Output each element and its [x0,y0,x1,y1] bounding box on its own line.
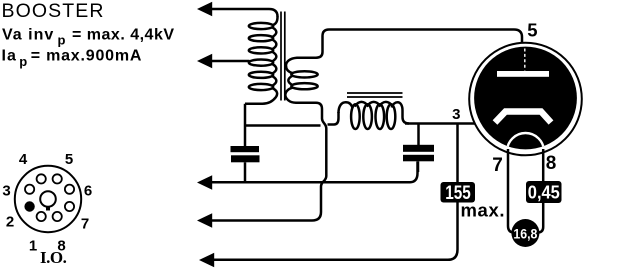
svg-text:= max.900mA: = max.900mA [31,48,143,65]
svg-text:BOOSTER: BOOSTER [2,0,105,22]
capacitor C2 [403,145,434,162]
C1 top lead vertical [244,104,247,146]
value circle 16,8 [511,219,539,247]
svg-text:Va inv: Va inv [2,27,54,44]
socket pin 3 [25,185,34,194]
svg-text:5: 5 [65,151,73,168]
rating Ia p = max.900mA [2,48,143,70]
rating Va inv p = max. 4,4kV [2,27,175,48]
ground rail wire y=181 to arrow 3 [210,162,418,183]
socket pin 5 [53,174,62,183]
pin 5 anode lead dashes inside disc [524,49,526,71]
terminal arrow 2 (primary tap) [197,54,250,68]
svg-text:= max. 4,4kV: = max. 4,4kV [72,27,175,44]
svg-text:p: p [19,54,27,69]
C2 bottom lead [417,161,420,172]
main node-3 wire y=123.5 to tube [405,122,482,125]
socket pin 7 [65,202,74,211]
terminal arrow 5 [199,253,214,267]
svg-text:Ia: Ia [2,48,17,65]
transformer T1 secondary winding [285,58,317,103]
socket diagram outer circle [15,166,81,232]
svg-text:I.O.: I.O. [40,248,67,267]
svg-text:8: 8 [546,153,557,174]
socket pin 8 [53,212,62,221]
terminal arrow 3 [197,175,212,189]
svg-text:p: p [58,33,66,48]
C2 top lead [417,124,420,146]
node wire y=125 from C1 to choke [245,124,321,127]
tube V1 inner black disc [474,47,577,150]
svg-text:16,8: 16,8 [513,225,537,241]
C1 bottom lead [244,162,247,182]
anode plate (white bar) [497,71,549,77]
secondary top lead to anode wire [297,30,523,58]
choke L2 core [347,93,403,97]
svg-text:7: 7 [81,216,89,233]
svg-text:7: 7 [492,155,503,176]
svg-text:6: 6 [84,183,92,200]
transformer T1 primary winding [245,16,278,104]
terminal arrow 1 (top, primary top) [197,2,278,17]
transformer core [281,12,285,101]
svg-text:3: 3 [452,106,460,123]
socket pin 6 [65,185,74,194]
socket center spigot [40,191,56,207]
socket pin 4 [37,174,46,183]
terminal arrow 4 [197,213,212,227]
choke L2 winding [339,102,410,129]
socket pin 1 [37,212,46,221]
socket pin 2 (filled) [24,201,34,211]
capacitor C1 [231,146,260,162]
value box 0,45 [526,181,562,203]
tube V1 envelope [469,43,582,156]
secondary bottom lead down to arrow 4 [210,103,326,221]
cathode chevron [495,112,551,123]
pin 8 heater wire [539,149,544,233]
value box 155 [441,182,476,203]
svg-text:3: 3 [2,183,10,200]
socket spigot key [46,206,50,211]
svg-text:4: 4 [19,151,28,168]
svg-text:max.: max. [461,200,506,221]
svg-text:5: 5 [527,19,537,40]
node 3 down wire through 155 box to arrow 5 [214,124,458,260]
pin 7 heater wire [508,149,513,233]
svg-text:1: 1 [29,238,37,255]
svg-text:0,45: 0,45 [528,183,560,203]
svg-text:2: 2 [6,214,14,231]
heater circle [507,133,544,170]
